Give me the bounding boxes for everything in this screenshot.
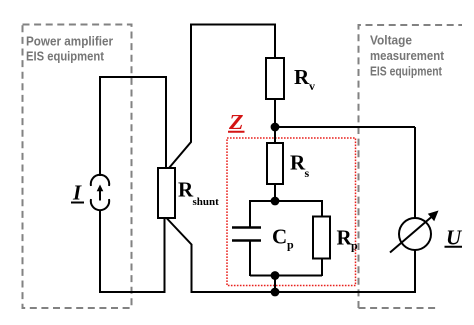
svg-text:Z: Z — [228, 110, 244, 134]
resistor R_v — [266, 58, 284, 99]
wire: power loop left vertical lower — [99, 210, 101, 294]
wire: R_v top lead — [274, 24, 276, 59]
node: junction at R_v bottom — [271, 123, 280, 132]
wire: voltmeter top lead — [414, 127, 416, 219]
wire: R_p bottom lead — [321, 259, 323, 277]
svg-text:v: v — [309, 79, 315, 93]
resistor R_s — [267, 143, 283, 184]
svg-text:s: s — [305, 166, 310, 180]
capacitor C_p — [232, 228, 261, 241]
node: junction on bottom wire — [271, 288, 280, 297]
wire: power loop top horizontal — [99, 76, 166, 78]
wire: bottom right horizontal — [191, 291, 416, 293]
svg-text:measurement: measurement — [370, 48, 445, 63]
svg-text:EIS equipment: EIS equipment — [370, 64, 443, 79]
dotted box Z (impedance) — [227, 138, 356, 286]
wire: horizontal to voltmeter branch — [275, 126, 415, 128]
wire: power loop left vertical upper — [99, 76, 101, 176]
voltmeter U — [390, 211, 439, 253]
svg-text:Power amplifier: Power amplifier — [26, 34, 113, 49]
underline of Z — [228, 131, 245, 133]
wire: power loop bottom right vertical to R_shunt bottom — [164, 218, 166, 293]
wire: parallel top bar — [250, 200, 322, 202]
underline of U — [445, 246, 463, 248]
wire: parallel bottom bar — [250, 275, 322, 277]
wire: Z branch to bottom wire — [274, 276, 276, 293]
svg-text:shunt: shunt — [193, 196, 220, 208]
wire: top loop left vertical with diagonal to R_shunt top — [169, 24, 191, 169]
wire: power loop bottom horizontal — [99, 291, 166, 293]
svg-text:I: I — [72, 181, 82, 205]
svg-text:EIS equipment: EIS equipment — [26, 49, 105, 64]
resistor R_p — [313, 217, 330, 259]
wire: voltmeter bottom lead — [414, 250, 416, 294]
dashed box: voltage measurement EIS equipment — [359, 25, 463, 308]
wire: top loop horizontal — [191, 24, 275, 26]
svg-text:p: p — [351, 239, 358, 253]
resistor R_shunt — [158, 168, 175, 218]
wire: R_s bottom lead — [274, 184, 276, 201]
svg-text:C: C — [272, 225, 287, 249]
svg-text:Voltage: Voltage — [370, 33, 412, 48]
wire: C_p bottom lead — [249, 241, 251, 277]
node: junction below R_s — [271, 197, 280, 206]
wire: R_p top lead — [321, 200, 323, 217]
wire: C_p top lead — [249, 200, 251, 227]
dashed box: power amplifier EIS equipment — [23, 25, 132, 309]
svg-text:R: R — [294, 65, 310, 89]
wire: R_s top lead — [274, 127, 276, 143]
current source I — [91, 175, 109, 210]
svg-text:p: p — [287, 238, 294, 252]
wire: right-bottom sense tap up with diagonal to R_shunt bottom — [167, 218, 192, 293]
underline of I — [71, 202, 84, 204]
wire: R_v bottom lead — [274, 99, 276, 127]
wire: power loop right vertical to R_shunt top — [165, 76, 167, 168]
node: junction at parallel bottom — [271, 271, 280, 280]
